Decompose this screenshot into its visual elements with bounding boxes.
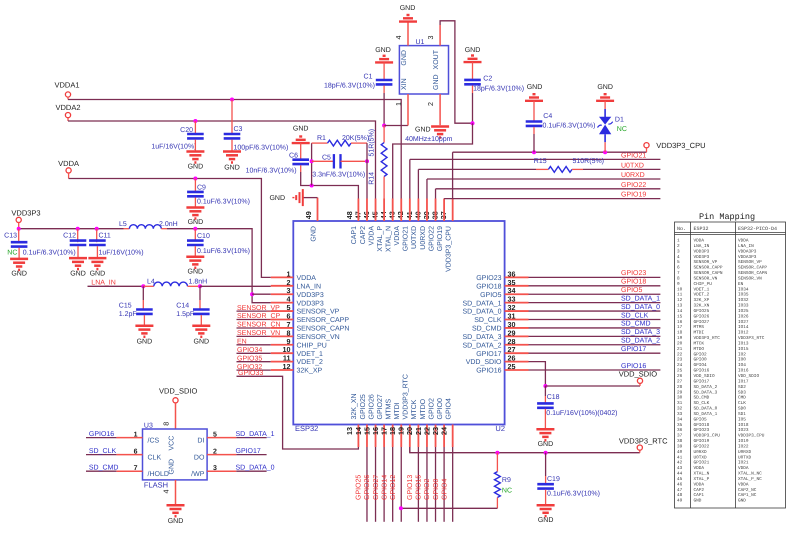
svg-text:42: 42 (677, 461, 683, 466)
svg-text:GPIO16: GPIO16 (89, 431, 114, 438)
svg-text:CLK: CLK (738, 401, 746, 406)
port VDDA2 (65, 113, 70, 118)
svg-text:GPIO0: GPIO0 (694, 358, 708, 363)
svg-text:VDDA2: VDDA2 (55, 103, 80, 112)
wire C3 lead (231, 100, 233, 135)
svg-text:GPIO17: GPIO17 (621, 346, 646, 353)
svg-text:CHIP_PU: CHIP_PU (694, 282, 713, 287)
svg-text:R9: R9 (502, 477, 511, 484)
pin 18 stub (400, 425, 402, 448)
wire C14 to gnd (200, 315, 202, 326)
svg-text:33: 33 (677, 412, 683, 417)
ground below U3 (167, 505, 185, 516)
port VDDA (66, 168, 71, 173)
svg-text:CMD: CMD (738, 396, 746, 401)
port VDD3P3 (16, 217, 21, 222)
svg-text:XTAL_P: XTAL_P (694, 477, 710, 482)
svg-text:GPIO27: GPIO27 (373, 475, 380, 500)
svg-text:GPIO26: GPIO26 (364, 475, 371, 500)
svg-text:/WP: /WP (191, 470, 205, 478)
svg-text:D1: D1 (615, 116, 624, 123)
svg-text:/HOLD: /HOLD (148, 470, 169, 478)
svg-text:GPIO2: GPIO2 (424, 478, 431, 500)
svg-text:IO33: IO33 (738, 304, 749, 309)
pin 4 stub (271, 302, 294, 304)
U1 pin 3 stub (439, 25, 441, 46)
svg-text:SD_DATA_1: SD_DATA_1 (462, 300, 501, 307)
svg-text:FLASH: FLASH (144, 480, 168, 489)
svg-text:IO16: IO16 (738, 369, 749, 374)
wire C3 to gnd (231, 140, 233, 152)
svg-text:VDDA: VDDA (694, 466, 705, 471)
svg-text:GPIO0: GPIO0 (437, 398, 444, 420)
pin 42 stub (409, 199, 411, 222)
wire to VDD_SDIO port (545, 385, 640, 387)
svg-text:C6: C6 (289, 153, 298, 160)
wire net GPIO27 (383, 447, 385, 522)
svg-text:Pin Mapping: Pin Mapping (699, 212, 755, 222)
wire C20 to gnd (194, 140, 196, 152)
svg-text:SD_DATA_3: SD_DATA_3 (621, 329, 660, 336)
svg-text:VDDA: VDDA (297, 275, 317, 282)
svg-text:C14: C14 (176, 303, 189, 310)
svg-text:35: 35 (677, 423, 683, 428)
svg-text:1: 1 (134, 431, 138, 438)
wire net SD_CLK (86, 454, 116, 456)
resistor R9 (495, 472, 501, 498)
pin 47 stub (366, 199, 368, 222)
svg-text:ESP32: ESP32 (694, 226, 709, 232)
wire gnd to C6 (300, 143, 302, 160)
svg-text:49: 49 (677, 499, 683, 504)
U3 pin 1 stub (116, 437, 142, 439)
wire pin 26 to VDD_SDIO (529, 362, 546, 386)
ground below C13 (10, 259, 28, 270)
wire net SD_CMD (86, 470, 116, 472)
svg-text:CAP1: CAP1 (351, 226, 358, 244)
svg-text:IO21: IO21 (738, 461, 749, 466)
svg-text:NC: NC (502, 487, 512, 494)
wire C12 to gnd (77, 246, 79, 258)
svg-text:GPIO19: GPIO19 (437, 226, 444, 251)
junction D1 (603, 150, 607, 154)
svg-text:XTAL_N_NC: XTAL_N_NC (738, 472, 762, 477)
svg-text:C1: C1 (364, 74, 373, 81)
port VDDA1 (65, 92, 70, 97)
svg-text:GPIO27: GPIO27 (694, 320, 710, 325)
svg-text:100pF/6.3V(10%): 100pF/6.3V(10%) (234, 144, 289, 152)
capacitor C19 (537, 484, 554, 488)
svg-text:MTCK: MTCK (694, 342, 705, 347)
ground below C3 (223, 152, 241, 163)
svg-text:IO5: IO5 (738, 417, 746, 422)
svg-text:VDD3P3: VDD3P3 (297, 292, 324, 299)
wire C10 to gnd (194, 246, 196, 257)
svg-text:0.1uF/6.3V(10%): 0.1uF/6.3V(10%) (543, 121, 596, 129)
wire net SD_CLK (529, 319, 661, 321)
pin 40 stub (426, 199, 428, 222)
U3 pin 8 stub (175, 403, 177, 429)
wire net GPIO16 (529, 369, 661, 371)
wire R1 left lead (312, 142, 328, 144)
svg-text:GND: GND (465, 47, 481, 54)
svg-text:U1: U1 (416, 39, 425, 46)
svg-text:IO0: IO0 (738, 358, 746, 363)
svg-text:GPIO19: GPIO19 (694, 439, 710, 444)
svg-text:43: 43 (677, 466, 683, 471)
svg-text:NC: NC (617, 126, 627, 133)
capacitor C20 (187, 134, 204, 138)
svg-text:4: 4 (162, 490, 171, 494)
svg-text:32: 32 (677, 407, 683, 412)
ground above C4 (525, 94, 543, 101)
svg-text:CLK: CLK (148, 454, 162, 461)
wire gnd to D1 (604, 101, 606, 109)
svg-text:U0TXD: U0TXD (621, 162, 644, 169)
pin 48 stub (357, 199, 359, 222)
pin 17 stub (392, 425, 394, 448)
svg-text:19: 19 (677, 336, 683, 341)
svg-text:XOUT: XOUT (433, 49, 440, 69)
port VDD_SDIO (173, 398, 178, 403)
svg-text:6: 6 (677, 266, 680, 271)
ground above C6 (292, 137, 310, 144)
pin 28 stub (505, 344, 529, 346)
ground below C18 (536, 429, 554, 440)
svg-text:GPIO23: GPIO23 (694, 428, 710, 433)
svg-text:VDDA: VDDA (738, 239, 749, 244)
wire net GPIO35 (237, 361, 271, 363)
wire net SD_DATA_0 (529, 310, 661, 312)
svg-text:MTMS: MTMS (385, 399, 392, 420)
pin 1 stub (271, 276, 294, 278)
svg-text:VDDA1: VDDA1 (54, 81, 79, 90)
pin 23 stub (443, 425, 445, 448)
svg-text:VDD3P3_RTC: VDD3P3_RTC (694, 336, 721, 341)
svg-text:GND: GND (293, 126, 309, 133)
wire net SD_DATA_2 (529, 344, 661, 346)
wire VDDA to pin 1 (69, 179, 271, 278)
svg-text:DO: DO (194, 454, 205, 461)
svg-text:SD_DATA_1: SD_DATA_1 (694, 412, 718, 417)
svg-text:GND: GND (310, 226, 317, 242)
svg-text:VDD3P3_RTC: VDD3P3_RTC (619, 436, 668, 445)
wire XTAL_N to pin 44 (393, 123, 473, 198)
svg-text:22: 22 (677, 352, 683, 357)
svg-text:R1: R1 (317, 135, 326, 142)
pin 33 stub (505, 302, 529, 304)
svg-text:SENSOR_VP: SENSOR_VP (738, 260, 762, 265)
svg-text:26: 26 (677, 374, 683, 379)
svg-text:39: 39 (677, 445, 683, 450)
svg-text:0.1uF/6.3V(10%): 0.1uF/6.3V(10%) (547, 490, 600, 498)
svg-text:GND: GND (401, 50, 408, 66)
svg-text:GND: GND (70, 271, 86, 278)
junction C2/XOUT (471, 121, 475, 125)
svg-text:45: 45 (677, 477, 683, 482)
svg-text:12: 12 (677, 298, 683, 303)
svg-text:VDDA: VDDA (694, 482, 705, 487)
svg-text:GND: GND (597, 84, 613, 91)
svg-text:SD_CMD: SD_CMD (694, 396, 710, 401)
wire GPIO22 riser (435, 189, 437, 199)
wire GPIO21 riser (409, 159, 411, 198)
wire gnd to C4 (533, 101, 535, 122)
svg-text:IO17: IO17 (738, 379, 749, 384)
wire C9 lead (194, 179, 196, 193)
svg-text:28: 28 (677, 385, 683, 390)
svg-text:/CS: /CS (148, 436, 160, 444)
port VDD_SDIO (637, 378, 642, 383)
wire C6 to pin 48 (301, 172, 359, 199)
svg-text:GPIO12: GPIO12 (390, 475, 397, 500)
svg-text:GPIO22: GPIO22 (694, 445, 710, 450)
junction VDDA2/C20 (193, 119, 197, 123)
svg-text:GPIO18: GPIO18 (694, 423, 710, 428)
svg-text:VDD3P3_CPU: VDD3P3_CPU (445, 226, 452, 272)
svg-text:VDD3P3: VDD3P3 (297, 300, 324, 307)
wire R14 top lead (383, 126, 385, 143)
svg-text:GND: GND (188, 164, 204, 171)
pin 15 stub (375, 425, 377, 448)
svg-text:C9: C9 (197, 185, 206, 192)
svg-text:IO14: IO14 (738, 325, 749, 330)
svg-text:SD_CMD: SD_CMD (89, 465, 119, 472)
pin 20 stub (417, 425, 419, 448)
wire net GPIO17 (529, 352, 661, 354)
wire R9 bottom lead (496, 498, 498, 509)
svg-text:GPIO27: GPIO27 (377, 394, 384, 419)
pin 29 stub (505, 335, 529, 337)
svg-text:C5: C5 (322, 155, 331, 162)
pin 41 stub (417, 199, 419, 222)
svg-text:GPIO35: GPIO35 (237, 355, 262, 362)
svg-text:32K_XN: 32K_XN (351, 393, 358, 419)
svg-text:SD_DATA_2: SD_DATA_2 (462, 342, 501, 349)
svg-text:GPIO26: GPIO26 (368, 394, 375, 419)
pin 27 stub (505, 352, 529, 354)
svg-text:GND: GND (400, 5, 416, 12)
svg-text:GPIO25: GPIO25 (356, 475, 363, 500)
svg-text:SD_DATA_3: SD_DATA_3 (694, 390, 718, 395)
svg-text:VCC: VCC (168, 436, 175, 451)
svg-text:GND: GND (433, 74, 440, 90)
svg-text:XTAL_P: XTAL_P (377, 226, 384, 252)
svg-text:MTMS: MTMS (694, 325, 705, 330)
svg-text:GPIO13: GPIO13 (407, 475, 414, 500)
capacitor C10 (187, 241, 204, 245)
svg-text:VDDA: VDDA (368, 226, 375, 246)
capacitor C6 (292, 160, 309, 164)
wire net GPIO12 (400, 447, 402, 522)
junction R9/GPIO12 (399, 506, 403, 510)
svg-text:3.3nF/6.3V(10%): 3.3nF/6.3V(10%) (312, 171, 365, 179)
svg-text:1.8nH: 1.8nH (189, 279, 208, 286)
wire L5 to pin 4 (167, 229, 271, 303)
wire net GPIO4 (452, 447, 454, 522)
ground below C12 (69, 258, 87, 269)
wire net GPIO15 (426, 447, 428, 522)
pin 32 stub (505, 310, 529, 312)
U1 pin 1 stub (407, 94, 409, 126)
wire C12 lead (77, 229, 79, 243)
svg-text:0.1uF/6.3V(10%): 0.1uF/6.3V(10%) (23, 249, 76, 257)
svg-text:24: 24 (677, 363, 683, 368)
svg-text:U0RXD: U0RXD (621, 172, 645, 179)
ground above U1 pin 4 (399, 15, 417, 22)
svg-text:IO35: IO35 (738, 293, 749, 298)
svg-text:31: 31 (677, 401, 683, 406)
svg-text:C20: C20 (180, 127, 193, 134)
wire junction to XIN (384, 125, 408, 127)
wire L4 to pin 2 (200, 285, 271, 287)
svg-text:GND: GND (168, 459, 175, 475)
wire C11 to gnd (96, 246, 98, 258)
U3 pin 2 stub (207, 454, 236, 456)
svg-text:MTDI: MTDI (394, 402, 401, 419)
wire VDDA2 to pin 46 (68, 121, 376, 199)
svg-text:SD_CMD: SD_CMD (621, 321, 651, 328)
wire net SD_DATA_0 (236, 470, 266, 472)
junction R9 top (495, 451, 499, 455)
svg-text:41: 41 (677, 455, 683, 460)
pin 49 stub (317, 198, 319, 221)
svg-text:XIN: XIN (401, 78, 408, 90)
svg-text:1.2pF: 1.2pF (119, 311, 137, 318)
svg-text:12: 12 (283, 362, 291, 371)
wire D1 to bus (604, 142, 606, 152)
svg-text:SD1: SD1 (738, 412, 746, 417)
junction VDD3P3/C10 (193, 227, 197, 231)
svg-text:38: 38 (677, 439, 683, 444)
svg-text:U0TXD: U0TXD (738, 455, 752, 460)
wire C10 lead (194, 229, 196, 241)
capacitor C15 (136, 310, 153, 314)
ground above C1 (375, 56, 393, 63)
junction VDDA1/C3 (230, 98, 234, 102)
capacitor C14 (193, 310, 210, 314)
pin 39 stub (435, 199, 437, 222)
svg-text:GPIO17: GPIO17 (476, 351, 501, 358)
pin 38 stub (443, 199, 445, 222)
svg-text:24: 24 (439, 427, 448, 435)
pin 45 stub (383, 199, 385, 222)
wire C19 drop (545, 453, 547, 476)
wire pin 37 riser (452, 152, 454, 198)
svg-text:GPIO21: GPIO21 (621, 152, 646, 159)
svg-text:GPIO4: GPIO4 (441, 478, 448, 500)
svg-text:LNA_IN: LNA_IN (738, 244, 754, 249)
inductor L4 (154, 282, 188, 286)
svg-text:CHIP_PU: CHIP_PU (297, 342, 327, 349)
capacitor C12 (70, 241, 87, 245)
wire C4 lead (533, 127, 535, 134)
svg-text:VDD3P3: VDD3P3 (694, 249, 710, 254)
wire C11 lead (96, 229, 98, 243)
svg-text:IO2: IO2 (738, 352, 746, 357)
inductor L5 (129, 225, 161, 229)
wire net EN (237, 344, 271, 346)
svg-text:SD_CLK: SD_CLK (474, 317, 502, 324)
svg-text:GPIO16: GPIO16 (694, 369, 710, 374)
svg-text:GPIO19: GPIO19 (621, 192, 646, 199)
svg-text:SD_CLK: SD_CLK (89, 448, 117, 455)
wire net GPIO2 (435, 447, 437, 522)
svg-text:LNA_IN: LNA_IN (694, 244, 710, 249)
svg-text:SD_DATA_3: SD_DATA_3 (462, 334, 501, 341)
svg-text:15: 15 (677, 314, 683, 319)
svg-text:0.1uF/6.3V(10%): 0.1uF/6.3V(10%) (197, 198, 250, 206)
svg-text:VDET_1: VDET_1 (694, 287, 710, 292)
wire gnd to C2 (472, 62, 474, 80)
svg-text:46: 46 (677, 482, 683, 487)
svg-text:IO19: IO19 (738, 439, 749, 444)
svg-text:IO15: IO15 (738, 347, 749, 352)
svg-text:GPIO25: GPIO25 (360, 394, 367, 419)
wire GPIO22 (436, 188, 661, 190)
svg-text:C3: C3 (234, 126, 243, 133)
U3 pin 6 stub (116, 454, 142, 456)
wire C9 to gnd (194, 198, 196, 208)
svg-text:20: 20 (677, 342, 683, 347)
svg-text:SENSOR_CAPP: SENSOR_CAPP (297, 317, 350, 324)
svg-text:2.0nH: 2.0nH (159, 221, 178, 228)
svg-text:14: 14 (677, 309, 683, 314)
pin 13 stub (357, 425, 359, 448)
wire C1 to junction (383, 93, 385, 126)
svg-text:51R(5%): 51R(5%) (368, 129, 376, 157)
svg-text:U0RXD: U0RXD (694, 450, 708, 455)
svg-text:GND: GND (90, 271, 106, 278)
wire net SD_DATA_1 (236, 437, 266, 439)
pin 46 stub (375, 199, 377, 222)
svg-text:VDDA: VDDA (394, 226, 401, 246)
wire net GPIO0 (443, 447, 445, 522)
svg-text:GPIO16: GPIO16 (476, 368, 501, 375)
svg-text:MTCK: MTCK (411, 399, 418, 419)
svg-text:VDD3P3_CPU: VDD3P3_CPU (738, 434, 765, 439)
wire net GPIO13 (417, 447, 419, 522)
svg-text:0.1uF/16V(10%)(0402): 0.1uF/16V(10%)(0402) (546, 409, 617, 417)
svg-text:IO32: IO32 (738, 298, 749, 303)
svg-text:U2: U2 (495, 424, 505, 433)
svg-text:SD3: SD3 (738, 390, 746, 395)
wire VDD3P3_CPU bus (453, 151, 647, 153)
wire R1C5 left riser (311, 143, 313, 185)
pin 5 stub (271, 310, 294, 312)
svg-text:XTAL_N: XTAL_N (694, 472, 710, 477)
wire R1 right lead (351, 142, 367, 144)
ground below C20 (186, 152, 204, 163)
svg-text:VDD3P3_CPU: VDD3P3_CPU (656, 141, 705, 150)
IC U3 FLASH box (143, 429, 208, 480)
svg-text:16: 16 (677, 320, 683, 325)
pin 37 stub (452, 199, 454, 222)
wire net GPIO14 (392, 447, 394, 522)
svg-text:510R(5%): 510R(5%) (573, 157, 605, 165)
ground below C11 (88, 258, 106, 269)
svg-text:MTDO: MTDO (694, 347, 705, 352)
svg-text:3: 3 (213, 465, 217, 472)
svg-text:30: 30 (677, 396, 683, 401)
pin 36 stub (505, 276, 529, 278)
svg-text:37: 37 (677, 434, 683, 439)
svg-text:GPIO0: GPIO0 (433, 478, 440, 500)
svg-text:IO12: IO12 (738, 331, 749, 336)
junction C14 (198, 284, 202, 288)
svg-text:3: 3 (677, 249, 680, 254)
svg-text:SD2: SD2 (738, 385, 746, 390)
